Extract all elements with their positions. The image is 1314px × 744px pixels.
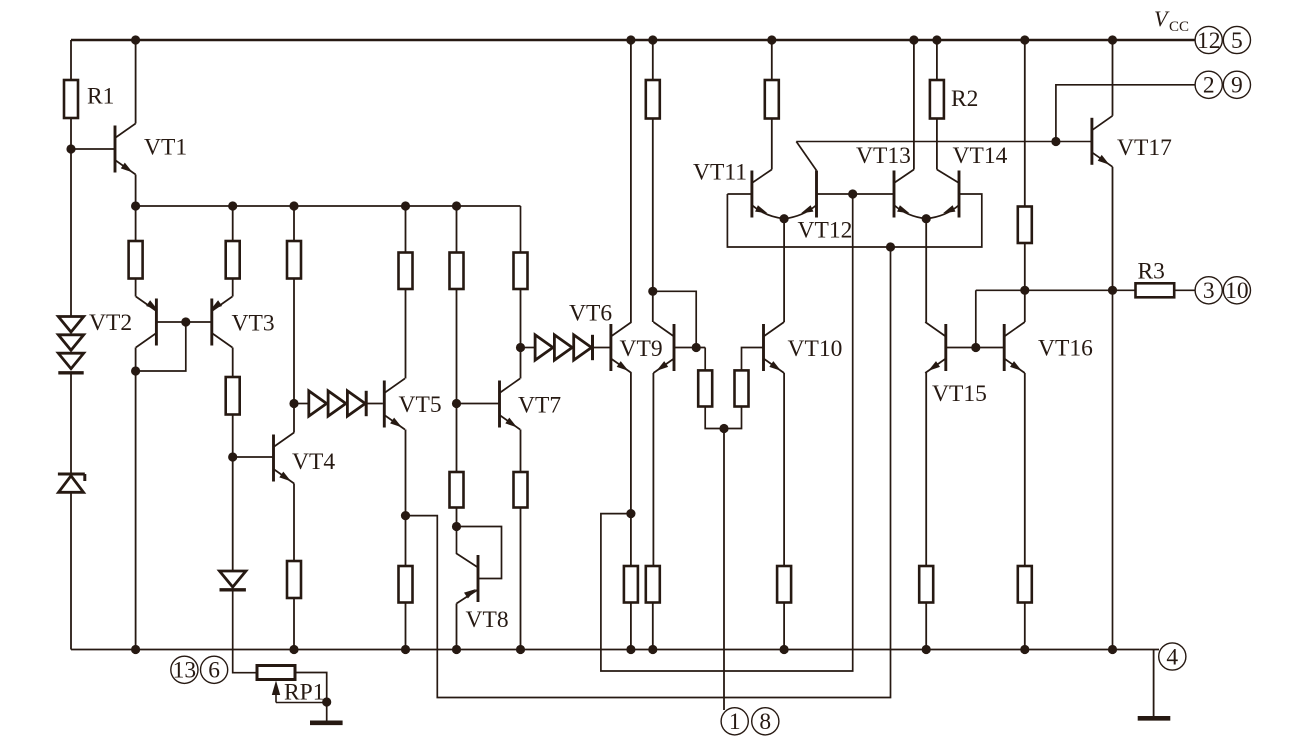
wire VT8 emitter to ground rail (456, 604, 458, 650)
wire VT15 emitter to R22 (925, 373, 927, 566)
svg-text:10: 10 (1225, 278, 1249, 304)
resistor R21 (765, 80, 779, 119)
terminal 4 (1159, 643, 1186, 670)
wire VT2-VT3 base link (156, 321, 211, 323)
node VT9 collector junction (648, 287, 657, 296)
terminal 13 (171, 656, 198, 683)
resistor R12 (450, 472, 464, 508)
svg-text:VT11: VT11 (693, 160, 747, 186)
terminal 5 (1223, 26, 1250, 53)
wire R14 to ground rail (520, 508, 522, 650)
transistor VT17 (1090, 118, 1093, 165)
wire R20 to ground rail (783, 603, 785, 650)
terminal 2 (1195, 71, 1222, 98)
wire VT4 collector (293, 404, 295, 433)
terminal 6 (201, 656, 228, 683)
wire VT2 collector to mirror bases (136, 322, 186, 371)
svg-text:VT13: VT13 (856, 143, 911, 169)
wire emitter node horizontal (976, 289, 1113, 291)
wire R8 to ground rail (293, 598, 295, 650)
wire R1 to VT1 base node (70, 118, 72, 317)
wire VT5 emitter to R10 (405, 516, 407, 566)
wire VT9 collector-base link (653, 291, 696, 347)
resistor R22 (919, 566, 933, 603)
wire VT11 base (727, 193, 752, 195)
node bias rail junctions (131, 201, 140, 210)
wire R9 top lead (405, 206, 407, 253)
wire lead to R11 (456, 206, 458, 253)
wire base box VT11-VT14 (727, 194, 981, 247)
wire VT1 emitter to bias rail (135, 175, 137, 207)
wire R16 to VT9 collector node (652, 119, 654, 292)
resistor R18 (698, 370, 712, 406)
resistor R3 (1136, 283, 1175, 297)
resistor R15 (624, 566, 638, 603)
wire R15 to ground rail (630, 603, 632, 650)
node VT5 emitter junction (401, 511, 410, 520)
transistor VT16 (1003, 324, 1006, 371)
transistor VT2 (155, 299, 158, 346)
wire R13 to VT7 collector node (520, 289, 522, 348)
diode string B (3 diodes) (535, 335, 553, 360)
wire VT16 collector (1024, 290, 1026, 322)
resistor R20 (777, 566, 791, 603)
transistor VT7 (498, 381, 501, 428)
wire to VT7 collector (520, 348, 522, 379)
wire VT2 collector down to ground rail (135, 348, 137, 650)
resistor R11 (450, 253, 464, 290)
wire wiper to ground (276, 702, 327, 704)
wire bias rail corner to R13 (520, 206, 522, 253)
resistor R8 (287, 561, 301, 598)
wire lead to R7 (293, 206, 295, 241)
wire VT10 emitter to R20 (783, 373, 785, 566)
wire VCC to R24 (1024, 40, 1026, 207)
wire VT12 collector to VT17 base (796, 141, 1090, 143)
terminal 8 (752, 708, 779, 735)
svg-text:RP1: RP1 (284, 680, 325, 706)
diode string A (3 diodes) (309, 391, 327, 416)
wire VT4 emitter lead (293, 484, 295, 562)
wire lead to R21 (771, 40, 773, 80)
transistor VT6 (609, 324, 612, 371)
wire to terminal 1-8 (723, 429, 725, 711)
transistor VT5 (383, 381, 386, 428)
wire VT5 emitter down (405, 430, 407, 516)
transistor VT15 (944, 324, 947, 371)
node VT7 base junction (452, 399, 461, 408)
node wiper junction (322, 697, 331, 706)
node VT9 base junction (692, 343, 701, 352)
terminal 12 (1195, 26, 1222, 53)
wire zener to ground rail (70, 492, 72, 649)
wire lead to R16 (652, 40, 654, 80)
svg-text:VT16: VT16 (1038, 336, 1093, 362)
wire VT16 emitter to R23 (1024, 373, 1026, 566)
svg-text:6: 6 (208, 658, 220, 684)
wire VT14 collector to R2 (936, 119, 938, 170)
wire to VT9 collector (652, 291, 654, 322)
wire R12 to VT8 node (456, 508, 458, 527)
ground symbol left (310, 720, 343, 725)
svg-text:CC: CC (1169, 19, 1189, 35)
wire VT7 base (457, 403, 500, 405)
wire base tap to emitter node (975, 290, 977, 347)
wire VT6 emitter down (630, 373, 632, 514)
wire R5 to VT3 emitter (232, 279, 234, 297)
terminal 1 (721, 708, 748, 735)
svg-text:VT3: VT3 (232, 311, 275, 337)
terminal 10 (1223, 277, 1250, 304)
wire ground drop (1153, 650, 1155, 717)
resistor R4 (129, 241, 143, 279)
wire diode string B to VT6 base (593, 347, 610, 349)
wire feedback VT12 base to VT6 emitter (601, 194, 853, 671)
wire VT13 collector to VCC (913, 40, 915, 170)
transistor VT9 (673, 324, 676, 371)
svg-text:VT6: VT6 (569, 301, 612, 327)
node VT4 base junction (228, 452, 237, 461)
wire R4 to VT2 emitter (135, 279, 137, 297)
resistor R23 (1018, 566, 1032, 603)
wire VT6 collector to VCC (630, 40, 632, 322)
wire to diode string A (294, 403, 309, 405)
wire R24 to emitter node (1024, 243, 1026, 290)
resistor R10 (399, 566, 413, 603)
wire VD2 to terminal 13-6 corner (233, 590, 257, 673)
resistor R16 (646, 80, 660, 119)
RP1 wiper arrow (272, 681, 280, 696)
wire VT10 collector to VT11 emitters (783, 219, 785, 322)
node VT17 emitter junction (1108, 286, 1117, 295)
wire base to R18 (704, 348, 706, 371)
wire RP1 right terminal (295, 673, 327, 722)
transistor VT1 (114, 126, 117, 173)
wire R6 to VT4 base node (232, 415, 234, 458)
wire to R3 (1113, 289, 1136, 291)
svg-text:VT4: VT4 (292, 449, 335, 475)
wire VT17 base to terminal 2-9 (1056, 85, 1195, 142)
node VT17 base junction (1051, 137, 1060, 146)
wire R19 top to VT10 base (742, 348, 764, 371)
resistor R5 (226, 241, 240, 279)
svg-text:R2: R2 (951, 86, 978, 112)
resistor R7 (287, 241, 301, 279)
svg-text:VT5: VT5 (399, 392, 442, 418)
node VT13-VT14 emitter junction (922, 214, 931, 223)
svg-text:2: 2 (1203, 73, 1215, 99)
node VT4 collector junction (289, 399, 298, 408)
svg-text:VT17: VT17 (1117, 135, 1172, 161)
wire R23 to ground rail (1024, 603, 1026, 650)
wire VT15 base (946, 347, 976, 349)
wire VT12-VT13 base link (817, 193, 895, 195)
diode VD2 (220, 571, 246, 587)
wire R22 to ground rail (925, 603, 927, 650)
wire R19 bottom (724, 407, 742, 429)
wire VT9 base (674, 347, 705, 349)
wire bias rail (136, 205, 521, 207)
node emitter resistor junction (719, 424, 728, 433)
wire VT17 collector to VCC (1112, 40, 1114, 116)
node diode string B junction (516, 343, 525, 352)
node VT1 base junction (66, 144, 75, 153)
wire VT13 emitters to VT15 collector (925, 219, 927, 322)
node VCC rail junctions (131, 35, 140, 44)
node VT6 emitter junction (626, 509, 635, 518)
wire R18 bottom (705, 407, 724, 429)
wire R11 to VT7 base node (456, 289, 458, 404)
svg-text:4: 4 (1166, 644, 1178, 670)
wire VT4 base (233, 456, 274, 458)
transistor VT3 (210, 299, 213, 346)
svg-text:5: 5 (1231, 28, 1243, 54)
wire VT5 collector to bias rail (405, 289, 407, 379)
transistor VT4 (272, 435, 275, 482)
resistor R24 (1018, 207, 1032, 244)
wire lead to R5 (232, 206, 234, 241)
wire ground rail (71, 649, 1159, 651)
wire R3 to terminal 3-10 (1174, 289, 1195, 291)
wire VT16 base (976, 347, 1004, 349)
wire R21 to VT11 collector (771, 119, 773, 170)
wire VT6 emitter to R15 (630, 514, 632, 566)
svg-text:VT12: VT12 (798, 218, 853, 244)
resistor R13 (514, 253, 528, 290)
terminal 9 (1223, 71, 1250, 98)
wire R10 to ground rail (405, 603, 407, 650)
wire VT17 emitter down (1112, 167, 1114, 290)
wire VT9 emitter to R17 (652, 373, 654, 566)
transistor VT12 (815, 171, 818, 218)
svg-text:VT2: VT2 (89, 310, 132, 336)
svg-text:VT14: VT14 (953, 143, 1008, 169)
node VT15-VT16 base junction (971, 343, 980, 352)
svg-text:13: 13 (173, 658, 197, 684)
svg-text:3: 3 (1203, 278, 1215, 304)
resistor R6 (226, 377, 240, 415)
wire down to R12 (456, 404, 458, 473)
svg-text:9: 9 (1231, 73, 1243, 99)
resistor R2 (930, 80, 944, 119)
terminal 3 (1195, 277, 1222, 304)
svg-text:VT9: VT9 (620, 336, 663, 362)
resistor R17 (646, 566, 660, 603)
node ground rail junctions (131, 645, 140, 654)
wire lead to R4 (135, 206, 137, 241)
wire diode string A to VT5 base (366, 403, 383, 405)
wire VCC top rail (71, 39, 1195, 42)
potentiometer RP1 (257, 666, 295, 680)
wire R2 to VCC (936, 40, 938, 80)
wire VT1 collector to VCC (135, 40, 137, 124)
wire down to diode VD2 (232, 457, 234, 571)
svg-text:VT15: VT15 (932, 381, 987, 407)
transistor VT8 (477, 555, 480, 602)
node base box junction (886, 242, 895, 251)
resistor R9 (399, 253, 413, 290)
node VT12-VT13 base junction (848, 189, 857, 198)
wire feedback box to VT5 emitter (406, 247, 891, 698)
wire VT3 collector lead (232, 348, 234, 378)
node VT11-VT12 emitter junction (780, 214, 789, 223)
svg-text:8: 8 (759, 709, 771, 735)
wire output node to ground rail (1112, 290, 1114, 649)
svg-text:VT7: VT7 (518, 393, 561, 419)
zener diode VD (58, 473, 85, 476)
ground symbol right (1138, 716, 1171, 721)
svg-text:R1: R1 (87, 84, 114, 110)
diode stack D1 D2 D3 (58, 317, 83, 333)
svg-text:R3: R3 (1138, 259, 1165, 285)
svg-text:VT10: VT10 (788, 336, 843, 362)
wire R17 to ground rail (652, 603, 654, 650)
wire R7 to VT4 collector node (293, 279, 295, 404)
wire VT7 emitter lead (520, 430, 522, 473)
resistor R19 (735, 370, 749, 406)
transistor VT11 (750, 171, 753, 218)
svg-text:12: 12 (1197, 28, 1221, 54)
resistor R1 (64, 80, 78, 118)
wire VT1 base (71, 148, 115, 150)
node base link junction (181, 317, 190, 326)
transistor VT13 (893, 171, 896, 218)
transistor VT10 (762, 324, 765, 371)
svg-text:VT8: VT8 (466, 607, 509, 633)
wire diode stack to zener (70, 373, 72, 473)
svg-text:1: 1 (729, 709, 741, 735)
svg-text:VT1: VT1 (144, 135, 187, 161)
node VT2 collector junction (131, 366, 140, 375)
node VT8 collector-base junction (452, 522, 461, 531)
node R24 junction (1020, 286, 1029, 295)
transistor VT14 (958, 171, 961, 218)
resistor R14 (514, 472, 528, 508)
wire to diode string B (521, 347, 536, 349)
wire R1 top lead (70, 40, 72, 80)
